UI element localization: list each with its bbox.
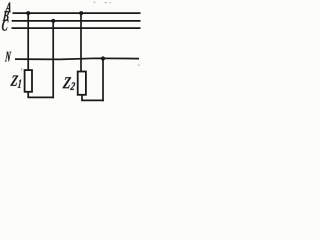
junction dot at A / Z2 branch xyxy=(79,11,83,15)
junction dot at A / Z1 branch xyxy=(26,11,30,15)
label Z1 subscript 1 xyxy=(18,80,22,88)
wire vertical from B down to bottom wire xyxy=(52,21,54,98)
faint scan speckles xyxy=(21,2,140,71)
junction dot at N / Z2 return xyxy=(101,56,105,60)
wire vertical from N down to bottom wire xyxy=(102,59,104,102)
junction dot at B / Z1 return xyxy=(51,19,55,23)
wire line A (phase A bus) xyxy=(13,12,141,14)
label A (phase A) xyxy=(5,3,11,13)
wire stub Z1 bottom xyxy=(27,92,29,98)
label C (phase C) xyxy=(2,20,9,31)
wire vertical from A to Z1 top xyxy=(27,13,29,70)
label B (phase B) xyxy=(3,11,10,21)
wire stub Z2 bottom xyxy=(81,95,83,101)
wire line C (phase C bus) xyxy=(12,27,141,29)
wire bottom horizontal Z1 to B-drop xyxy=(27,96,54,98)
label Z2 xyxy=(63,77,72,88)
wire line N (neutral bus) xyxy=(15,58,139,59)
impedance Z2 (rectangle) xyxy=(78,72,86,95)
label Z2 subscript 2 xyxy=(70,82,75,90)
label N (neutral) xyxy=(5,52,11,62)
wire line B (phase B bus) xyxy=(12,20,141,22)
label Z1 xyxy=(10,76,18,86)
wire vertical from A to Z2 top xyxy=(80,13,82,71)
impedance Z1 (rectangle) xyxy=(25,70,32,92)
wire bottom horizontal Z2 to N-drop xyxy=(81,99,104,101)
